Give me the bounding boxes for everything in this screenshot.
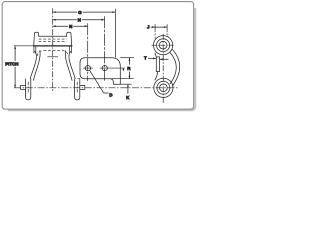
PITCH dimension line xyxy=(14,46,16,88)
front view: plate bottom edge xyxy=(33,45,72,47)
front view: left sidebar leg xyxy=(30,51,36,79)
leader D xyxy=(90,70,109,93)
front view: right sidebar leg xyxy=(69,51,75,79)
front view: right pin centerline xyxy=(76,82,78,94)
dimension N (inner) xyxy=(53,25,88,27)
front view: left pin head nub xyxy=(21,85,26,89)
front view: hidden barrel dome xyxy=(37,50,68,56)
dimension R xyxy=(128,58,130,79)
label PITCH xyxy=(4,61,21,67)
front view: left pin centerline xyxy=(27,82,29,94)
svg-text:N: N xyxy=(78,18,81,23)
extension line / hole centerline (inner hole) xyxy=(87,23,89,81)
dimension T arrows at plate edge view xyxy=(148,57,156,59)
front view: right pin head nub xyxy=(80,85,85,89)
label D xyxy=(109,92,114,97)
front view: left pin end xyxy=(26,79,31,100)
side view: sidebar left edges xyxy=(155,53,158,81)
front view: right pin end xyxy=(75,79,80,100)
label K xyxy=(126,94,131,99)
side view: upper eye circles xyxy=(154,36,173,55)
J extension dashes xyxy=(155,30,167,40)
card border xyxy=(2,2,193,110)
front view: hidden lines in plate xyxy=(39,39,67,42)
side view: plate edge-on tab xyxy=(156,57,159,72)
centerline of front view (vertical) xyxy=(52,8,54,92)
side view: sidebar right edges (S-curves) xyxy=(170,52,177,84)
dimension K xyxy=(127,84,129,93)
dimension G xyxy=(53,11,116,13)
card shadow xyxy=(8,8,195,110)
PITCH extension line xyxy=(14,45,34,47)
plan view: attachment plate outline with bent lip xyxy=(80,58,120,84)
small down arrow near lip xyxy=(122,68,124,69)
svg-text:T: T xyxy=(144,56,147,61)
extension line for G (plate end) xyxy=(114,9,116,58)
plan view: lip bottom extension xyxy=(120,83,131,85)
side view: sidebar centerline (vertical) xyxy=(162,34,164,103)
front view: attachment plate outline with upturned ends xyxy=(34,32,72,46)
lower pin centerline (horizontal, full width) xyxy=(14,87,178,89)
svg-text:PITCH: PITCH xyxy=(5,62,18,67)
hole centerline ticks xyxy=(83,67,125,69)
extension line / hole centerline (outer hole) xyxy=(104,16,106,81)
svg-text:G: G xyxy=(78,10,82,15)
svg-text:N: N xyxy=(69,24,72,29)
side view: lower eye circles xyxy=(154,78,173,97)
label R xyxy=(127,65,132,70)
plan view: top extension line xyxy=(120,57,134,59)
plan view: bottom extension line xyxy=(78,78,134,80)
side view: upper eye horizontal centerline xyxy=(152,44,175,46)
hole (inner) xyxy=(85,65,90,70)
front view: barrel center tick xyxy=(47,56,58,58)
hole (outer) xyxy=(102,65,107,70)
front view: plate end wrap stubs xyxy=(34,47,72,54)
dimension N (outer) xyxy=(53,19,105,21)
svg-text:J: J xyxy=(147,25,150,30)
